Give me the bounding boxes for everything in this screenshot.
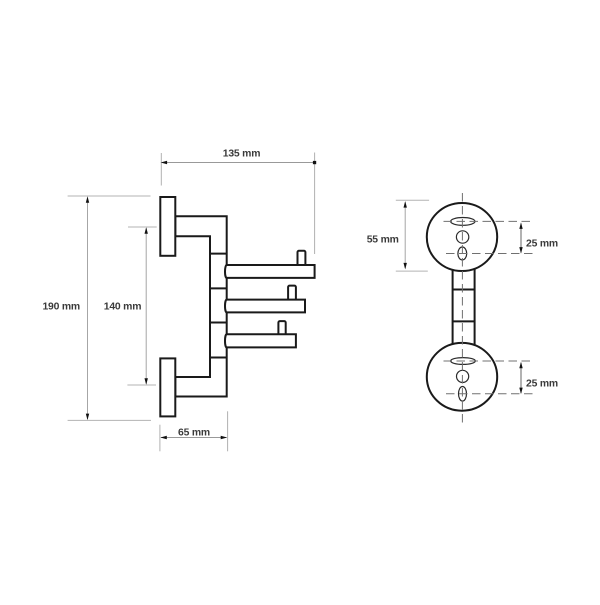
svg-text:135 mm: 135 mm <box>223 149 261 160</box>
swivel arm 3 <box>225 334 296 347</box>
top rosette slot (lens) <box>451 218 475 226</box>
svg-text:25 mm: 25 mm <box>526 379 558 390</box>
side view: bracket body (back posts and hub column) <box>175 216 226 396</box>
hook peg 1 <box>298 251 306 268</box>
top rosette oval hole <box>458 247 467 260</box>
wall plate top <box>160 197 175 256</box>
hook peg 3 <box>278 321 285 338</box>
front view: top rosette circle <box>427 203 497 271</box>
top rosette screw hole <box>456 231 468 243</box>
bottom rosette screw hole <box>457 370 469 382</box>
horizontal centerline through top oval hole <box>446 253 534 255</box>
svg-text:140 mm: 140 mm <box>104 302 142 313</box>
dimension 25 mm bottom <box>519 362 558 394</box>
horizontal centerline through top slot <box>444 220 534 222</box>
svg-text:55 mm: 55 mm <box>367 235 399 246</box>
horizontal centerline through bottom slot <box>444 360 534 362</box>
svg-text:65 mm: 65 mm <box>178 427 210 438</box>
dimension 190 mm <box>42 196 151 420</box>
dimension 140 mm <box>104 227 157 385</box>
svg-text:25 mm: 25 mm <box>526 238 558 249</box>
front view: bottom rosette circle <box>427 343 497 411</box>
dimension 25 mm top <box>519 222 558 253</box>
dimension 65 mm <box>160 411 228 451</box>
hook peg 2 <box>288 286 296 303</box>
swivel arm 2 <box>225 300 305 313</box>
wall plate bottom <box>160 358 175 416</box>
dimension 55 mm <box>367 200 429 271</box>
bottom rosette oval hole <box>459 387 467 402</box>
front view: connecting bar <box>453 263 475 350</box>
dimension 135 mm <box>161 149 317 254</box>
hub column joint lines <box>210 254 227 358</box>
bottom rosette slot (lens) <box>451 358 476 365</box>
vertical dash-dot centerline <box>461 193 463 424</box>
swivel arm 1 <box>225 265 315 278</box>
horizontal centerline through bottom oval hole <box>446 393 534 395</box>
svg-text:190 mm: 190 mm <box>42 302 80 313</box>
